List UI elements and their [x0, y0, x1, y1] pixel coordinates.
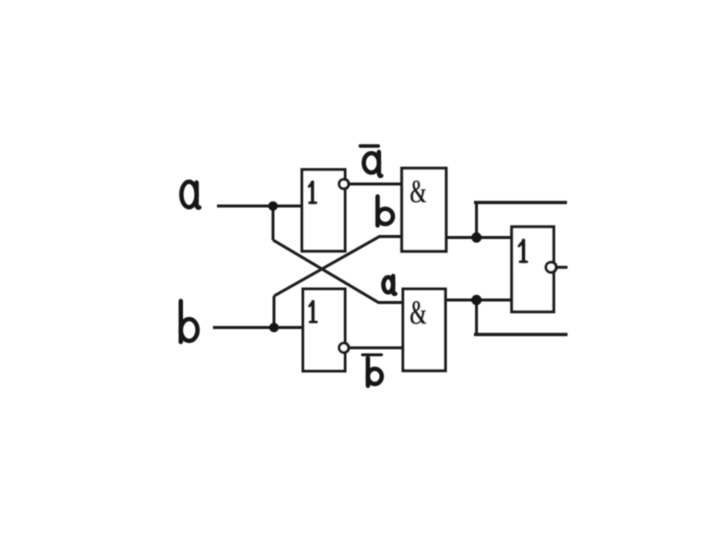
svg-text:&: & [409, 294, 428, 332]
svg-text:&: & [409, 173, 427, 211]
